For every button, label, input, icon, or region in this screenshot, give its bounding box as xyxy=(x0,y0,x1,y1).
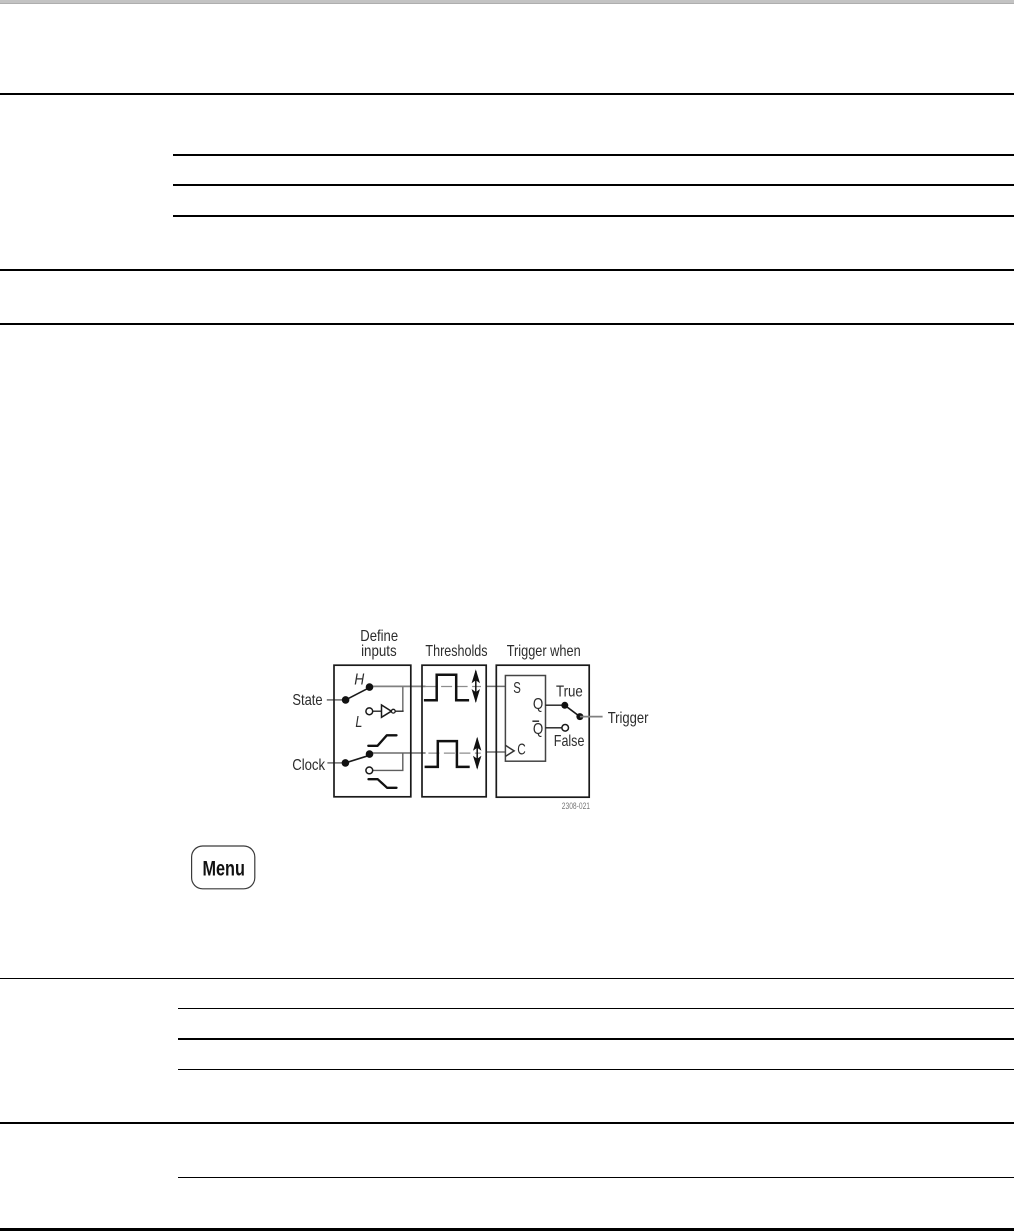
switch S2 rise contact dot xyxy=(366,750,374,758)
wire inverter output xyxy=(395,710,404,712)
table1 rule c xyxy=(173,215,1014,217)
switch S3 pole dot xyxy=(576,713,583,720)
wire thresholds to C input xyxy=(486,751,505,753)
svg-text:Menu: Menu xyxy=(203,857,245,880)
svg-text:H: H xyxy=(354,672,364,689)
wire inverter feedback vertical xyxy=(402,686,404,711)
table2 rule b xyxy=(178,1038,1014,1040)
table2 rule a xyxy=(178,1008,1014,1010)
svg-text:Trigger when: Trigger when xyxy=(507,643,581,660)
header gray bar xyxy=(0,0,1014,4)
threshold arrow upper down-head xyxy=(472,689,480,703)
threshold arrow lower down-head xyxy=(473,756,481,770)
box3 Trigger when xyxy=(496,665,589,797)
svg-text:Trigger: Trigger xyxy=(608,710,649,727)
wire Qbar output xyxy=(546,727,562,729)
rising edge symbol xyxy=(368,735,396,746)
table1 rule b xyxy=(173,184,1014,186)
header thick rule xyxy=(0,93,1014,96)
inverter U1 output bubble xyxy=(391,709,395,713)
switch S2 fall contact circle xyxy=(366,767,373,774)
svg-text:False: False xyxy=(554,733,585,750)
svg-text:Q: Q xyxy=(533,696,543,713)
box1 Define inputs xyxy=(334,665,411,797)
wire Clock lead xyxy=(327,762,345,764)
box2 Thresholds xyxy=(422,665,486,797)
svg-text:L: L xyxy=(355,714,362,731)
falling edge symbol xyxy=(369,779,397,788)
switch S1 H contact dot xyxy=(366,683,374,691)
pin Qbar overbar xyxy=(532,720,539,722)
figure: logic state trigger schematic xyxy=(275,615,665,820)
svg-text:True: True xyxy=(556,684,583,701)
footer black bar xyxy=(0,1228,1014,1231)
svg-text:Clock: Clock xyxy=(292,757,326,774)
wire threshold2 dashed level xyxy=(428,752,480,754)
threshold arrow upper up-head xyxy=(472,669,480,683)
switch S2 lever xyxy=(345,755,369,763)
switch S2 pole dot xyxy=(342,759,350,767)
table1 rule a xyxy=(173,154,1014,156)
switch S3 False contact circle xyxy=(562,725,569,732)
threshold arrow lower up-head xyxy=(473,737,481,751)
inverter U1 input bubble xyxy=(366,708,373,715)
menu button xyxy=(185,840,265,896)
switch S1 lever xyxy=(346,688,370,700)
section rule a xyxy=(0,269,1014,272)
wire Trigger output xyxy=(580,716,603,718)
bottom section thin rule xyxy=(0,978,1014,980)
bottom partial rule xyxy=(178,1177,1014,1179)
wire inverter input xyxy=(373,710,382,712)
switch S3 lever xyxy=(565,705,580,716)
pin C clock wedge xyxy=(505,745,514,756)
svg-text:C: C xyxy=(517,742,526,759)
inverter U1 triangle xyxy=(382,705,392,717)
threshold arrow lower shaft xyxy=(476,739,478,769)
bottom full rule xyxy=(0,1122,1014,1124)
svg-text:State: State xyxy=(292,692,322,709)
wire clock lower contact xyxy=(373,753,403,770)
wire State lead xyxy=(327,699,346,701)
threshold arrow upper shaft xyxy=(475,671,477,702)
flip-flop U2 box xyxy=(505,676,545,762)
wire threshold1 dashed level xyxy=(426,686,481,688)
svg-text:S: S xyxy=(513,680,521,697)
waveform pulse lower xyxy=(425,741,470,767)
wire Q output xyxy=(546,704,565,706)
wire state switch to thresholds xyxy=(370,685,426,687)
wire thresholds to S input xyxy=(486,685,505,687)
switch S3 True contact dot xyxy=(561,702,568,709)
svg-text:Q: Q xyxy=(533,721,543,738)
table2 rule c xyxy=(178,1069,1014,1071)
svg-text:2308-021: 2308-021 xyxy=(562,801,590,812)
section rule b xyxy=(0,323,1014,326)
waveform pulse upper xyxy=(424,675,469,701)
svg-text:Thresholds: Thresholds xyxy=(425,643,487,660)
wire clock switch to thresholds xyxy=(370,752,426,754)
switch S1 pole dot xyxy=(342,696,350,704)
svg-text:inputs: inputs xyxy=(361,643,397,660)
